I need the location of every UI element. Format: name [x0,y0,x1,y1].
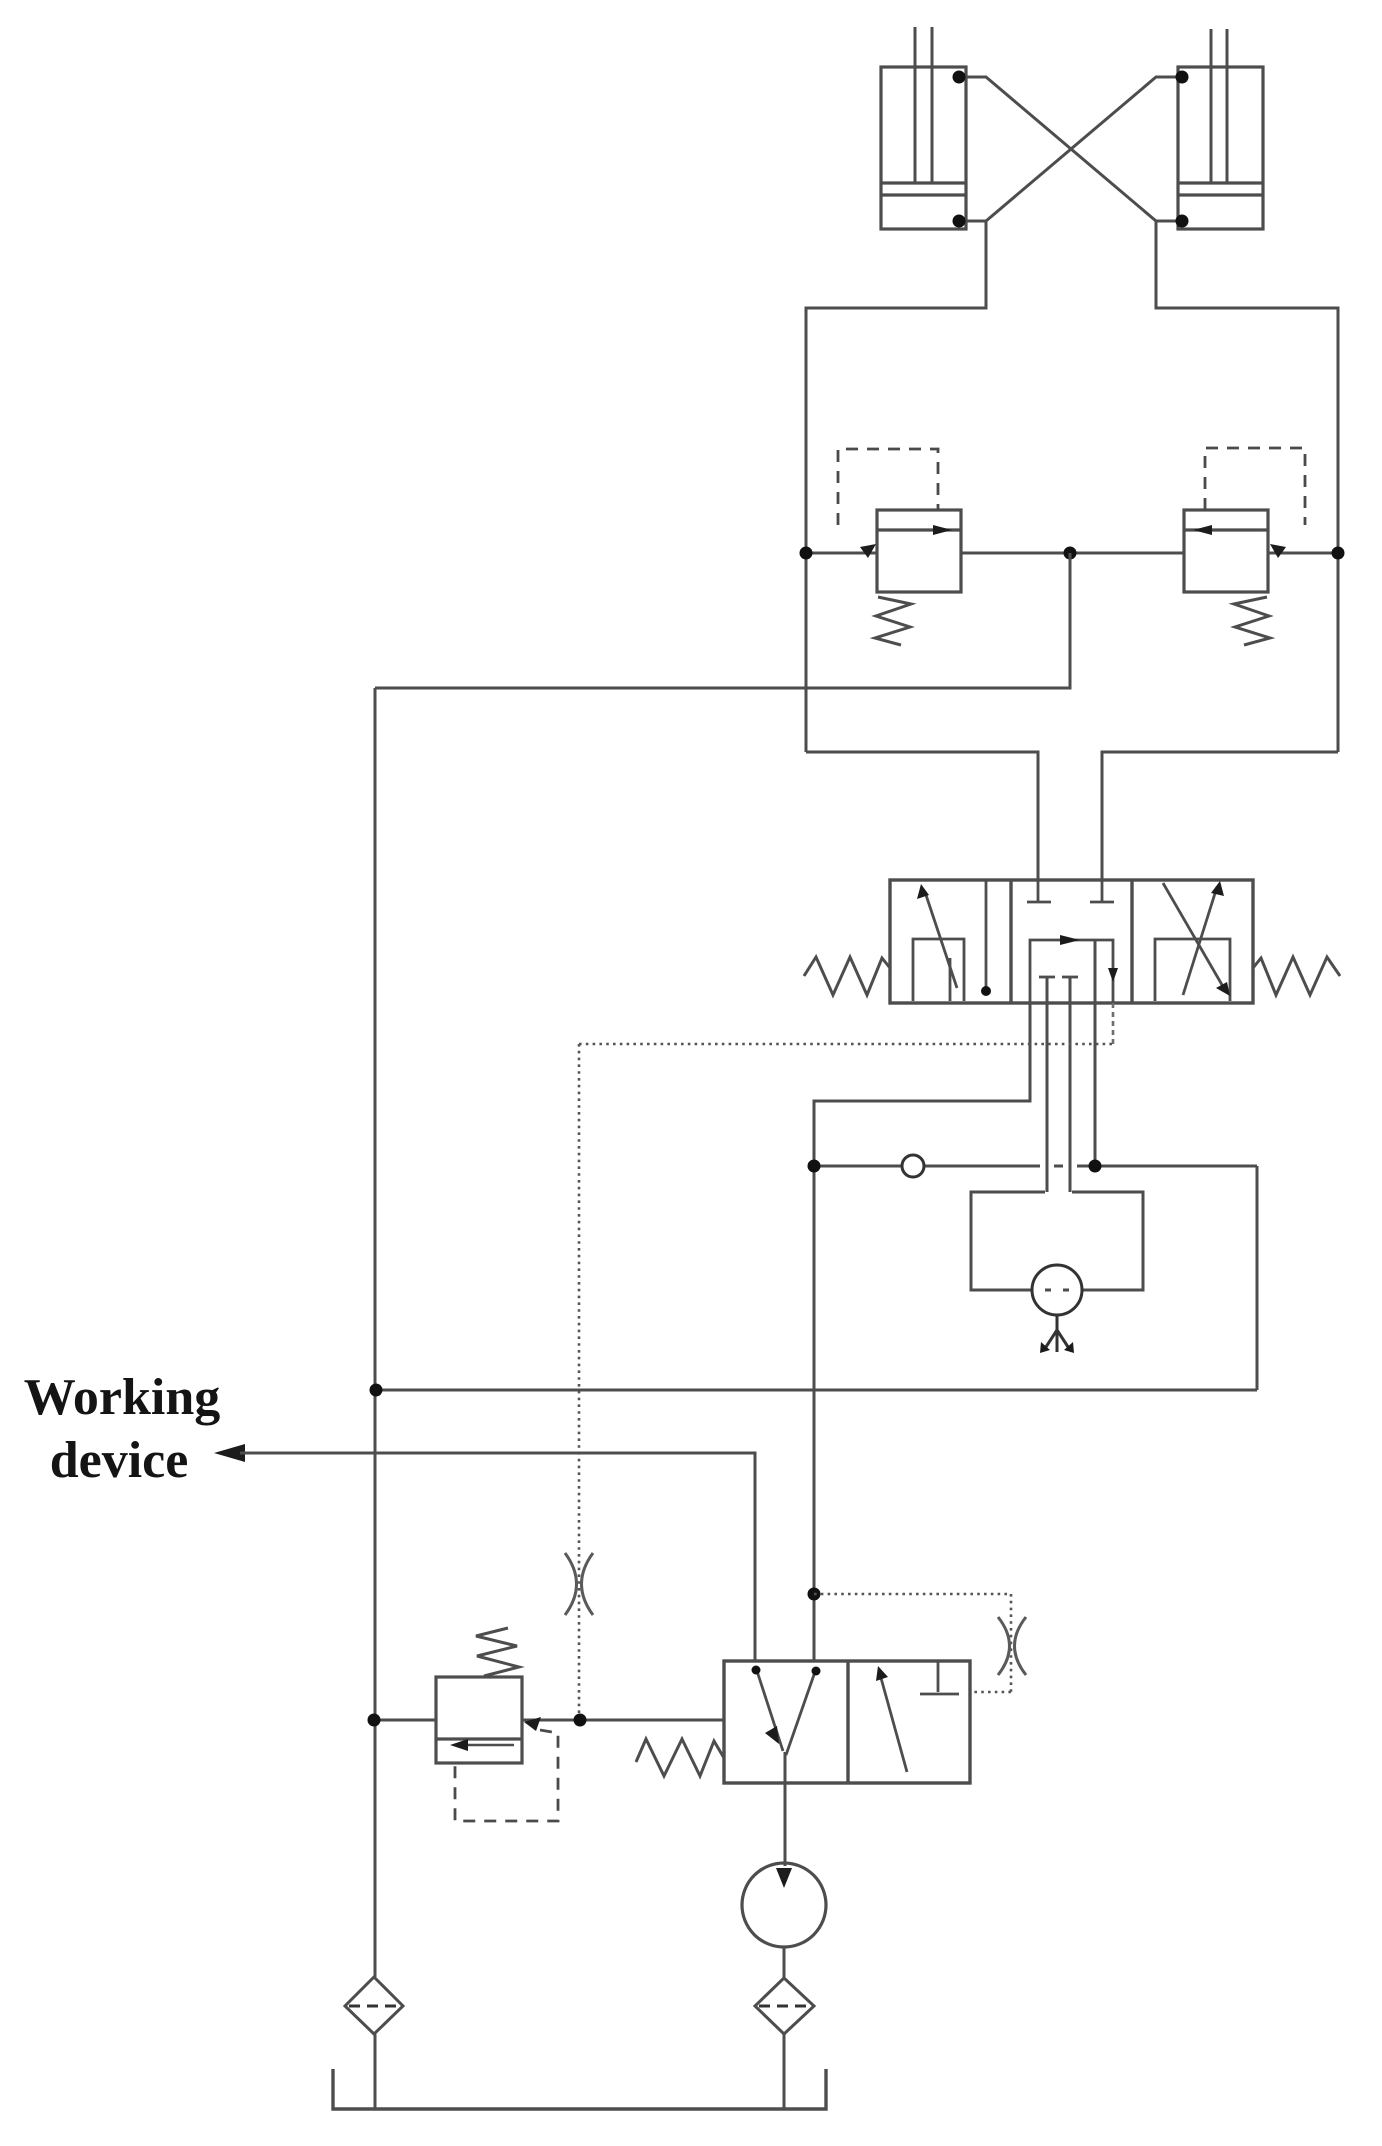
DV2 left position internals [756,1668,816,1755]
node pilot takeoff DV2 [808,1588,821,1601]
wire DV1 left pump port [1046,977,1049,1192]
node DV1 left position [981,986,991,996]
directional valve DV1 body [890,880,1253,1003]
throttle on pilot line [565,1553,593,1615]
text Working device [24,1369,221,1489]
svg-text:device: device [50,1432,189,1489]
node left supply / enclosure bottom [370,1384,383,1397]
DV1 left position internals [913,880,986,1001]
node manifold right [1332,547,1345,560]
drain symbol below motor [1044,1315,1070,1352]
wire manifold bottom left to DV1 [806,752,1038,880]
wire DV1 right pump port [1069,977,1072,1192]
spring DV1 left [804,957,890,995]
node lower line left [368,1714,381,1727]
spring DV1 right [1253,957,1340,995]
wire long left supply line [374,688,377,1977]
filter F2 (right) [755,1978,814,2034]
node enclosure left [808,1160,821,1173]
node CYL1 bottom port [953,215,966,228]
pilot box RV1 (dashed) [838,449,938,525]
DV1 centre position internals [1027,880,1118,1003]
arrow to working device [214,1444,245,1462]
DV2 right position internals [876,1661,959,1772]
spring DV2 [636,1739,724,1776]
pump P1 flow arrow [776,1868,792,1888]
spring RV1 [875,597,911,645]
wire working device to DV2 [240,1453,755,1661]
wire enclosure left / pilot supply down to DV2 [813,1166,816,1661]
pilot stub DV1 (dashed) [1112,1003,1115,1044]
pilot box RV3 (dashed) [455,1730,558,1821]
node CYL2 top port [1176,71,1189,84]
wire manifold bottom right to DV1 [1102,752,1338,880]
wire DV2 to pump P1 [784,1752,787,1866]
wire DV1 A-port down and left [814,1003,1030,1166]
spring RV2 [1234,597,1270,645]
wire cross connection B (CYL1 bottom to CYL2 top) [959,77,1182,221]
wire filter F1 to tank [374,2034,377,2109]
relief valve RV1 [860,510,961,592]
svg-text:Working: Working [24,1369,221,1426]
pump enclosure top line [814,1165,1257,1168]
wire cross connection A (CYL1 top to CYL2 bottom) [959,77,1182,221]
node enclosure P-port [1089,1160,1102,1173]
relief valve RV3 [436,1677,541,1763]
cylinder CYL2 piston rod [1211,29,1227,183]
pilot line DV1 vertical (dotted) [578,1044,581,1720]
relief valve RV2 [1184,510,1286,592]
node CYL2 bottom port [1176,215,1189,228]
motor circle inner marks [1045,1289,1069,1292]
DV1 right position internals [1155,881,1230,1001]
cylinder CYL1 body [881,67,966,229]
pilot line DV1 horizontal (dotted) [579,1043,1113,1046]
wire DV1 P-port [1094,940,1097,1166]
wire relief manifold line [806,552,1338,555]
spring RV3 [476,1628,519,1676]
cylinder CYL1 piston rod [915,27,932,183]
wire center tap to left supply [375,553,1070,688]
wire CYL2 bottom to manifold right side [1156,221,1338,752]
node manifold center [1064,547,1077,560]
pump enclosure bottom line [376,1389,1257,1392]
node CYL1 top port [953,71,966,84]
pilot line DV2 (dotted) [814,1594,1011,1692]
wire lower relief line [374,1719,724,1722]
cylinder CYL2 body [1178,67,1263,229]
node DV2 port B [812,1667,821,1676]
motor circle [1032,1265,1082,1315]
pilot box RV2 (dashed) [1205,448,1305,525]
pump enclosure right side [1256,1166,1259,1390]
throttle on DV2 pilot line [998,1617,1026,1675]
node pilot junction lower [574,1714,587,1727]
gauge circle on enclosure line [902,1155,924,1177]
filter F1 (left) [345,1977,403,2034]
wire filter F2 to tank [783,2034,786,2109]
wire pump suction [783,1947,786,1979]
pump unit box [971,1192,1143,1290]
node manifold left [800,547,813,560]
node DV2 port A [752,1666,761,1675]
wire CYL1 bottom to manifold left side [806,221,986,752]
pump P1 [742,1863,826,1947]
directional valve DV2 body [724,1661,970,1783]
tank [333,2069,826,2109]
